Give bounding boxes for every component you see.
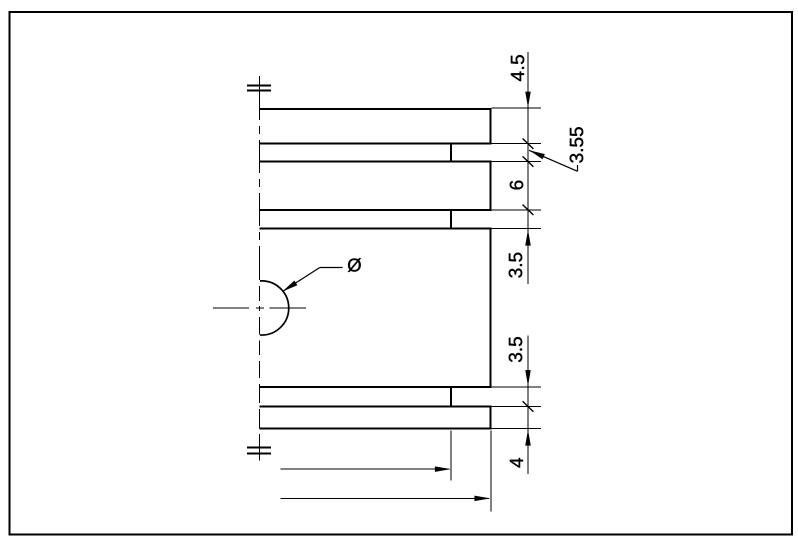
label 6	[510, 181, 523, 190]
tick at 143.7	[523, 139, 534, 149]
part right edge wide segments	[490, 109, 492, 429]
leader arrowhead 3.55	[528, 148, 545, 160]
bottom extension line wide	[490, 430, 492, 511]
label 3.5 lower	[509, 337, 522, 362]
label 3.5 upper	[509, 253, 522, 278]
label 3.55	[570, 127, 583, 162]
centerline break mark bottom	[247, 448, 271, 454]
part outline slot1 bottom edge	[259, 161, 491, 163]
vertical dimension line	[527, 52, 529, 474]
leader arrowhead on hole	[281, 280, 297, 293]
arrow bottom dimension 2 (right)	[474, 496, 490, 502]
centerline break mark top	[247, 86, 271, 91]
part outline body bottom edge	[259, 386, 491, 388]
part outline top edge	[259, 108, 491, 110]
part outline body top edge	[259, 228, 491, 230]
part outline fin2 bottom edge	[259, 209, 491, 211]
leader for diameter label	[282, 268, 342, 292]
vertical centerline	[258, 76, 260, 461]
extension lines right	[492, 108, 541, 428]
bottom extension line narrow	[450, 430, 452, 480]
arrow bottom dimension 1 (right)	[435, 466, 451, 472]
arrow dimension 3.5 upper (up)	[525, 230, 531, 246]
arrow dimension 3.5 lower (down)	[525, 370, 531, 386]
label 4	[510, 458, 523, 468]
arrow dimension 4.5 (down)	[525, 92, 531, 108]
tick at 406.5	[523, 401, 534, 411]
part outline bottom edge	[259, 428, 491, 430]
tick at 161.6	[523, 156, 534, 166]
bottom dimension line 1	[280, 468, 449, 470]
tick at 209.8	[523, 205, 534, 215]
part slot inner edge segments	[450, 144, 452, 407]
leader for 3.55	[529, 150, 577, 171]
part outline fin1 bottom edge	[259, 143, 491, 145]
label 4.5	[511, 55, 524, 81]
hole arc	[260, 281, 289, 335]
part outline slot3 bottom edge	[259, 406, 491, 408]
diameter symbol label	[348, 258, 361, 272]
horizontal centerline of hole	[213, 307, 306, 309]
bottom dimension line 2	[280, 497, 489, 499]
arrow dimension 4 (up)	[525, 430, 531, 446]
